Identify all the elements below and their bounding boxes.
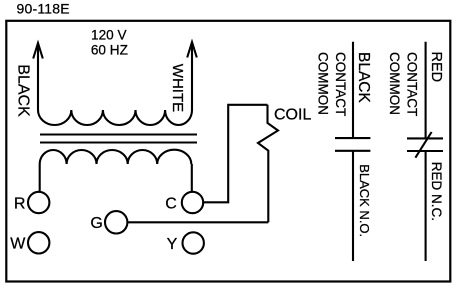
svg-text:120 V: 120 V: [91, 27, 127, 42]
svg-text:BLACK: BLACK: [355, 52, 372, 103]
svg-text:COMMON: COMMON: [387, 52, 402, 115]
svg-text:W: W: [10, 236, 26, 253]
contact RED N.C. upper wire: [425, 42, 427, 139]
terminal R: [28, 192, 49, 213]
svg-text:90-118E: 90-118E: [17, 0, 70, 16]
contact BLACK N.O. lower wire: [352, 151, 354, 261]
transformer core: [40, 135, 197, 143]
wire BLACK primary lead with arrow: [33, 43, 43, 110]
contact RED N.C. slash: [415, 132, 431, 158]
label 120V 60HZ: [91, 27, 128, 57]
terminal G: [105, 211, 127, 233]
svg-text:60 HZ: 60 HZ: [91, 43, 128, 58]
svg-text:COIL: COIL: [274, 106, 311, 123]
contact BLACK N.O. plates: [335, 138, 370, 151]
svg-text:CONTACT: CONTACT: [333, 52, 348, 116]
wire secondary left lead to R: [39, 164, 41, 192]
svg-text:BLACK: BLACK: [15, 64, 32, 117]
svg-text:BLACK N.O.: BLACK N.O.: [357, 164, 372, 237]
svg-text:WHITE: WHITE: [169, 64, 186, 112]
transformer secondary winding: [40, 150, 192, 164]
wire coil bottom to G: [127, 221, 268, 223]
wire WHITE primary lead with arrow: [187, 42, 197, 110]
contact RED N.C. plates: [407, 138, 443, 151]
wire secondary right lead to C: [191, 164, 193, 192]
contact BLACK N.O. upper wire: [352, 42, 354, 138]
svg-text:C: C: [165, 195, 177, 212]
wire C to coil loop: [204, 105, 268, 203]
terminal C: [182, 192, 203, 213]
svg-text:CONTACT: CONTACT: [405, 52, 420, 116]
svg-text:RED: RED: [428, 52, 444, 83]
transformer primary winding: [38, 110, 192, 125]
svg-text:R: R: [14, 195, 26, 212]
terminal W: [28, 232, 49, 253]
relay coil: [258, 105, 278, 223]
contact RED N.C. lower wire: [425, 151, 427, 261]
terminal Y: [183, 232, 204, 253]
svg-text:RED N.C.: RED N.C.: [429, 162, 444, 221]
svg-text:Y: Y: [167, 236, 178, 253]
svg-text:COMMON: COMMON: [315, 52, 330, 115]
svg-text:G: G: [90, 215, 102, 232]
